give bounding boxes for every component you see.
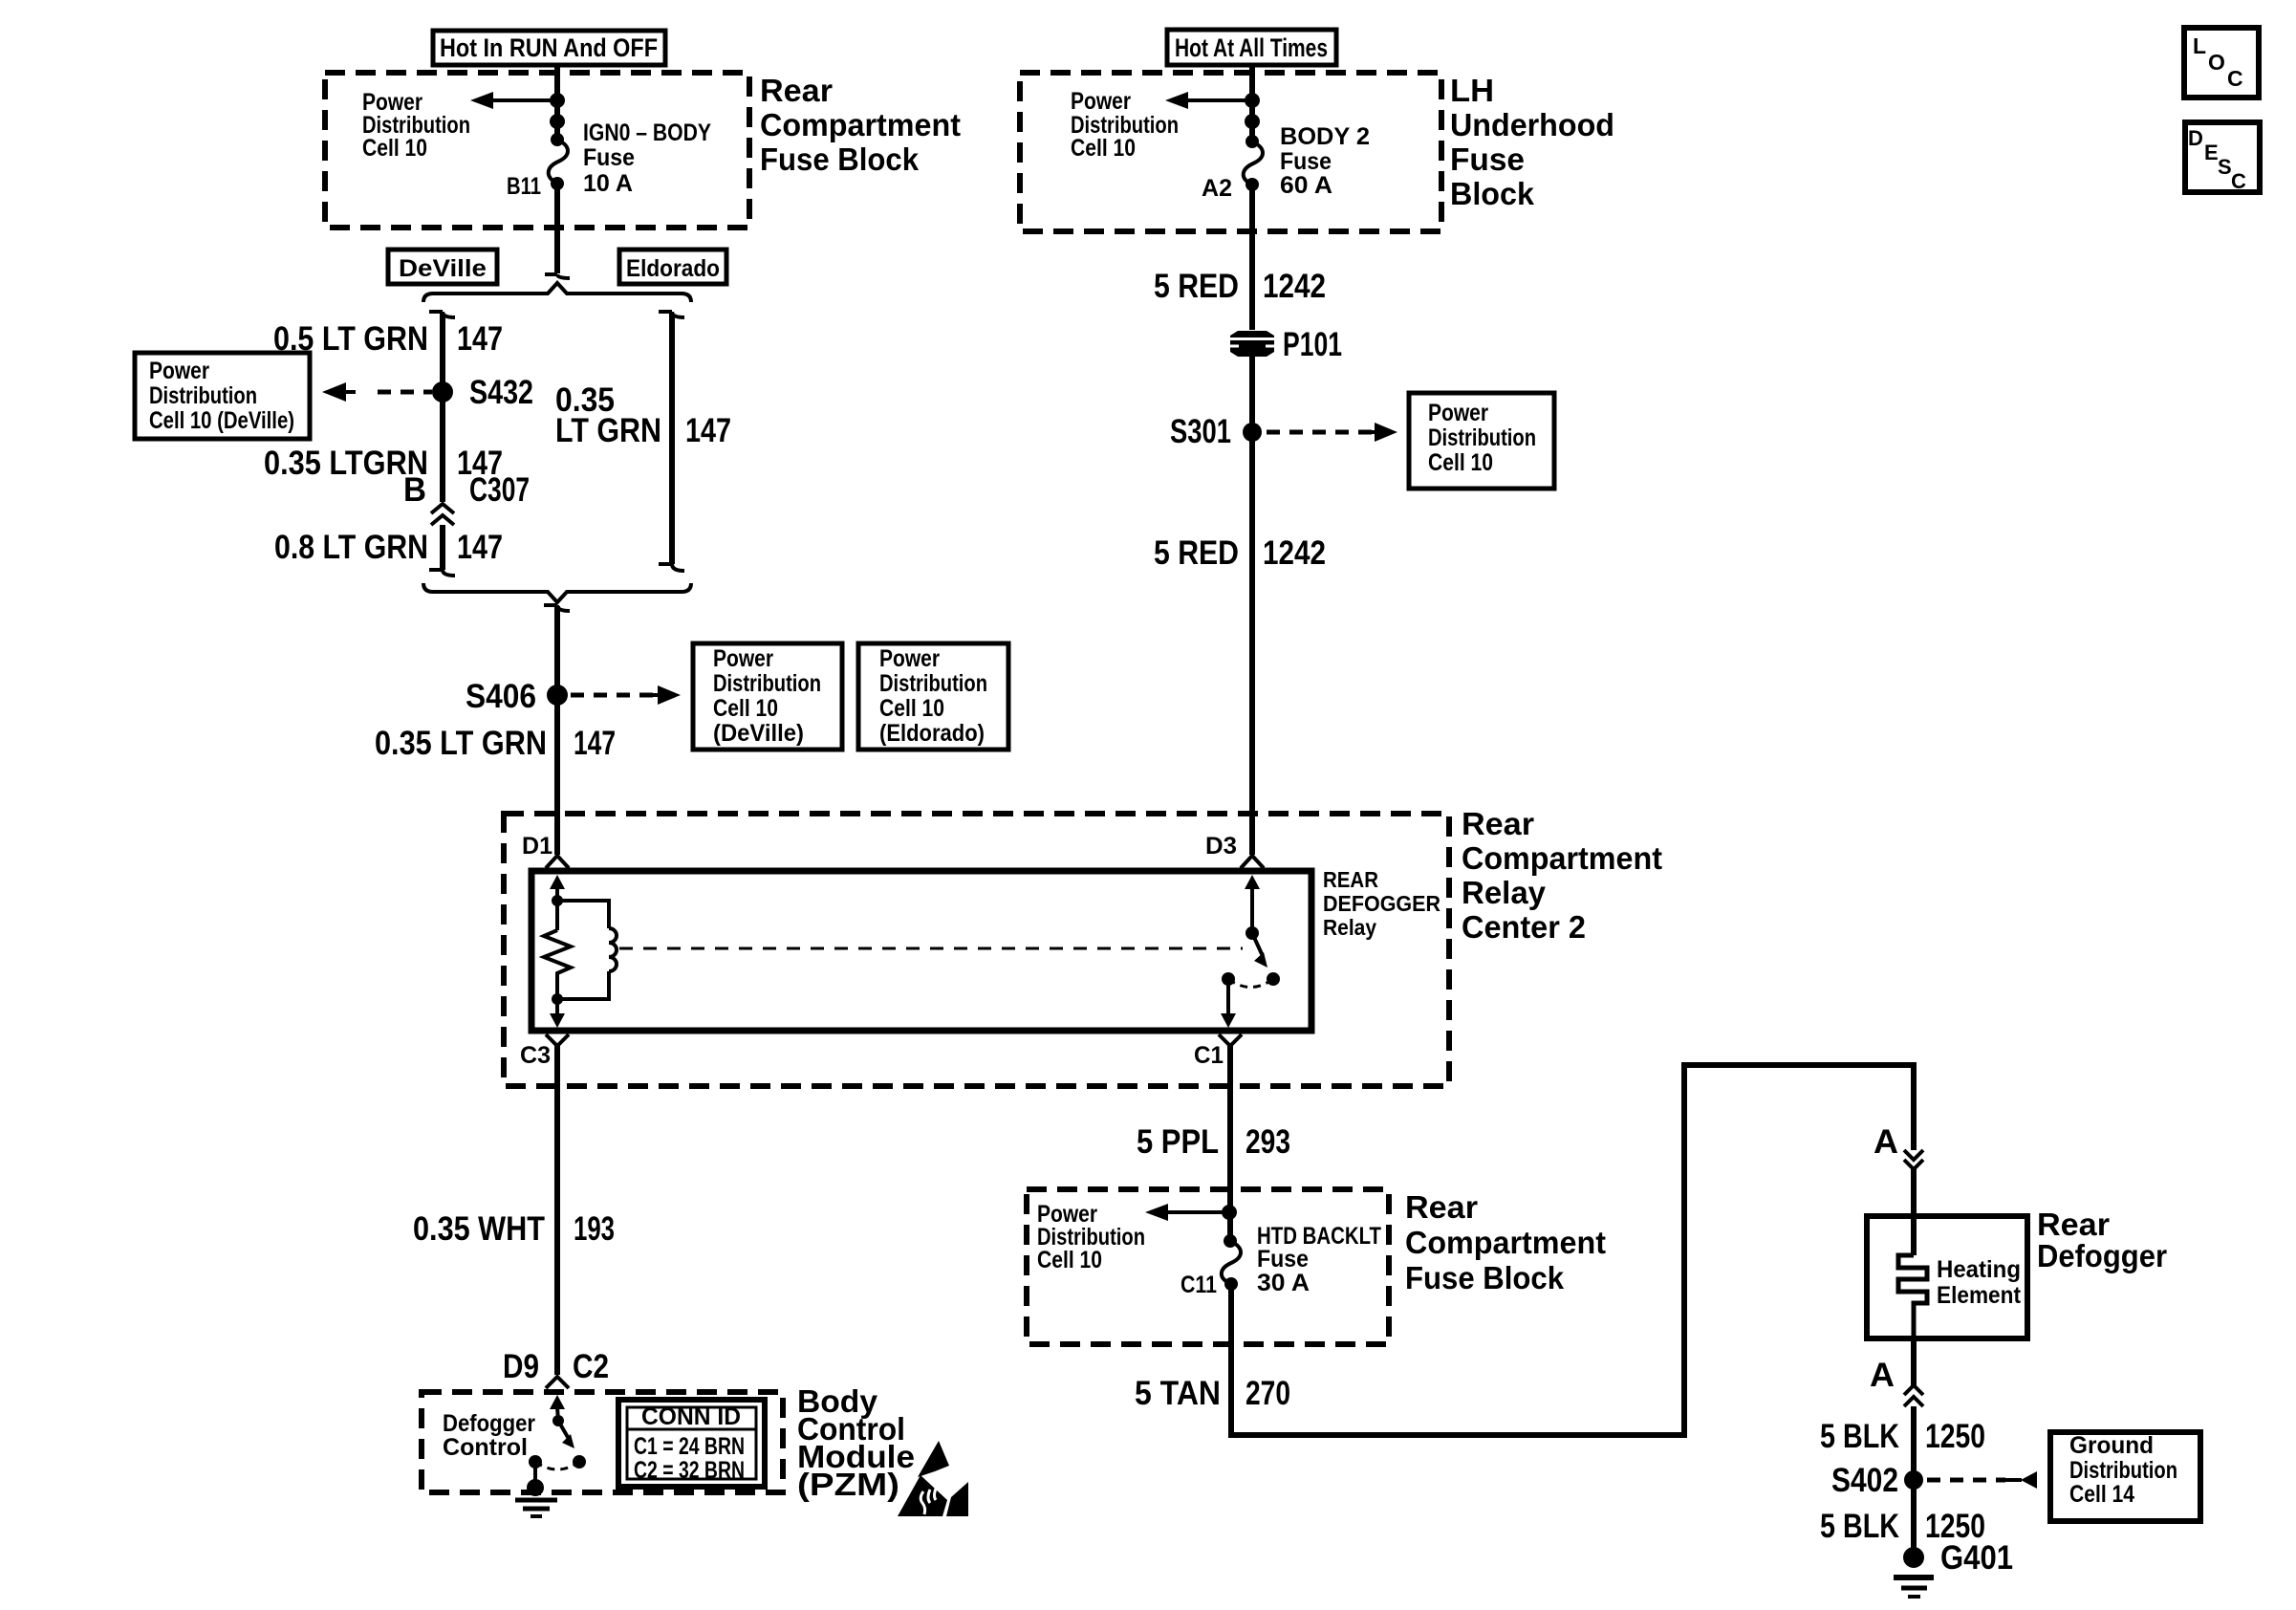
svg-text:Cell 10 (DeVille): Cell 10 (DeVille) (149, 407, 294, 434)
svg-text:S301: S301 (1170, 413, 1231, 450)
svg-text:A: A (1870, 1357, 1895, 1394)
svg-text:0.8 LT GRN: 0.8 LT GRN (274, 529, 428, 566)
svg-text:Cell 10: Cell 10 (879, 695, 944, 722)
svg-text:S406: S406 (466, 678, 536, 715)
svg-text:LH: LH (1450, 73, 1494, 108)
svg-text:Eldorado: Eldorado (626, 255, 720, 282)
svg-text:Relay: Relay (1323, 915, 1376, 940)
svg-text:Block: Block (1450, 176, 1535, 211)
svg-text:B11: B11 (507, 173, 541, 200)
svg-text:Cell 10: Cell 10 (362, 135, 427, 162)
svg-text:S432: S432 (469, 374, 533, 411)
svg-text:C: C (2231, 169, 2246, 193)
svg-text:Compartment: Compartment (1462, 840, 1662, 876)
svg-text:Fuse: Fuse (1280, 148, 1332, 175)
svg-text:Cell 10: Cell 10 (1428, 449, 1493, 476)
svg-text:D9: D9 (503, 1348, 539, 1385)
svg-text:5 PPL: 5 PPL (1137, 1123, 1219, 1161)
svg-text:C2 = 32 BRN: C2 = 32 BRN (634, 1457, 745, 1484)
svg-text:Compartment: Compartment (1405, 1225, 1606, 1260)
svg-text:CONN ID: CONN ID (641, 1403, 741, 1430)
svg-text:5 TAN: 5 TAN (1135, 1375, 1221, 1412)
svg-text:147: 147 (574, 725, 616, 762)
svg-text:270: 270 (1245, 1375, 1290, 1412)
svg-text:Distribution: Distribution (1428, 424, 1536, 451)
svg-text:IGN0 – BODY: IGN0 – BODY (583, 120, 711, 146)
svg-text:G401: G401 (1940, 1539, 2013, 1577)
svg-text:D1: D1 (522, 833, 552, 859)
svg-text:Heating: Heating (1937, 1256, 2021, 1283)
svg-text:C11: C11 (1180, 1272, 1217, 1298)
svg-text:5 RED: 5 RED (1154, 534, 1239, 572)
svg-text:Distribution: Distribution (2069, 1457, 2177, 1484)
svg-text:D3: D3 (1205, 833, 1237, 859)
svg-text:S402: S402 (1831, 1462, 1898, 1499)
svg-text:Fuse Block: Fuse Block (760, 141, 920, 177)
svg-text:Distribution: Distribution (149, 382, 257, 409)
svg-text:Rear: Rear (760, 73, 833, 108)
svg-text:C2: C2 (573, 1348, 609, 1385)
svg-text:Power: Power (879, 645, 940, 672)
svg-text:10 A: 10 A (583, 170, 633, 197)
svg-text:DEFOGGER: DEFOGGER (1323, 891, 1440, 916)
svg-text:193: 193 (574, 1210, 615, 1248)
svg-text:147: 147 (457, 320, 503, 358)
svg-text:1242: 1242 (1263, 268, 1326, 305)
svg-text:Fuse: Fuse (1450, 141, 1525, 177)
svg-text:Cell 10: Cell 10 (1071, 135, 1136, 162)
svg-text:Cell 10: Cell 10 (1037, 1247, 1102, 1273)
svg-text:5 RED: 5 RED (1154, 268, 1239, 305)
svg-text:C1: C1 (1194, 1042, 1224, 1069)
svg-text:Power: Power (1428, 400, 1488, 426)
svg-text:Compartment: Compartment (760, 107, 961, 142)
svg-text:Control: Control (443, 1434, 528, 1461)
svg-text:Defogger: Defogger (2037, 1238, 2167, 1273)
svg-text:(PZM): (PZM) (797, 1467, 899, 1502)
svg-text:Relay: Relay (1462, 875, 1547, 910)
svg-text:Power: Power (713, 645, 773, 672)
svg-text:5 BLK: 5 BLK (1820, 1508, 1899, 1545)
svg-text:LT GRN: LT GRN (555, 412, 661, 449)
svg-text:Hot At All Times: Hot At All Times (1175, 33, 1328, 62)
svg-text:Underhood: Underhood (1450, 107, 1614, 142)
svg-text:DeVille: DeVille (399, 255, 487, 282)
svg-text:Rear: Rear (1462, 806, 1534, 841)
svg-text:(DeVille): (DeVille) (713, 720, 804, 747)
svg-text:S: S (2218, 155, 2232, 179)
svg-text:C307: C307 (469, 471, 530, 509)
svg-text:C3: C3 (520, 1042, 551, 1069)
svg-text:O: O (2208, 50, 2225, 75)
svg-text:(Eldorado): (Eldorado) (879, 720, 985, 747)
svg-text:0.35 WHT: 0.35 WHT (413, 1210, 545, 1248)
svg-text:147: 147 (685, 412, 731, 449)
svg-text:D: D (2188, 126, 2203, 150)
svg-text:5 BLK: 5 BLK (1820, 1418, 1899, 1455)
svg-text:Ground: Ground (2069, 1432, 2154, 1459)
svg-text:293: 293 (1245, 1123, 1290, 1161)
svg-text:A2: A2 (1202, 175, 1232, 202)
svg-text:1242: 1242 (1263, 534, 1326, 572)
svg-text:E: E (2204, 141, 2219, 164)
svg-text:BODY 2: BODY 2 (1280, 123, 1370, 150)
svg-text:Cell 14: Cell 14 (2069, 1481, 2134, 1508)
svg-text:Rear: Rear (1405, 1189, 1478, 1225)
svg-text:147: 147 (457, 529, 503, 566)
svg-text:P101: P101 (1283, 326, 1342, 363)
svg-text:Fuse: Fuse (1257, 1246, 1309, 1273)
svg-text:Power: Power (149, 358, 209, 384)
svg-text:C1 = 24 BRN: C1 = 24 BRN (634, 1433, 745, 1460)
svg-text:Element: Element (1937, 1282, 2022, 1309)
svg-text:0.35 LT GRN: 0.35 LT GRN (375, 725, 547, 762)
svg-text:Hot In RUN And OFF: Hot In RUN And OFF (440, 33, 658, 62)
svg-text:Distribution: Distribution (879, 670, 987, 697)
svg-text:B: B (403, 471, 426, 509)
svg-text:Center 2: Center 2 (1462, 909, 1586, 945)
svg-text:30 A: 30 A (1257, 1270, 1310, 1296)
svg-text:Defogger: Defogger (443, 1410, 535, 1437)
svg-text:C: C (2227, 66, 2243, 91)
svg-text:Distribution: Distribution (713, 670, 821, 697)
svg-text:Rear: Rear (2037, 1207, 2110, 1242)
svg-text:Fuse Block: Fuse Block (1405, 1260, 1565, 1295)
svg-text:1250: 1250 (1925, 1418, 1985, 1455)
svg-text:60 A: 60 A (1280, 172, 1332, 199)
svg-text:Fuse: Fuse (583, 144, 635, 171)
svg-text:REAR: REAR (1323, 867, 1378, 892)
svg-text:Power: Power (1071, 88, 1131, 115)
svg-text:Cell 10: Cell 10 (713, 695, 778, 722)
svg-text:L: L (2193, 33, 2206, 58)
svg-text:A: A (1874, 1123, 1898, 1161)
